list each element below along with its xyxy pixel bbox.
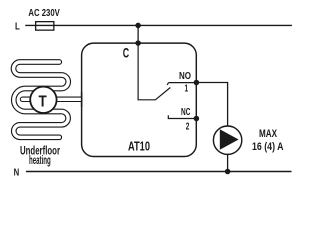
switch NC contact line xyxy=(168,115,196,118)
node NC terminal dot xyxy=(194,116,200,122)
pump P1 circle xyxy=(213,126,241,154)
node NO terminal dot xyxy=(194,80,200,86)
svg-text:2: 2 xyxy=(186,122,190,133)
junction dot on L xyxy=(135,23,141,29)
wire NO to pump xyxy=(196,83,227,127)
switch S1 common arm xyxy=(138,43,170,100)
svg-text:T: T xyxy=(39,93,47,110)
svg-text:NC: NC xyxy=(181,107,190,118)
svg-text:N: N xyxy=(14,167,20,179)
svg-text:16 (4) A: 16 (4) A xyxy=(252,141,284,153)
wire N line xyxy=(26,171,292,173)
wire pump to N xyxy=(227,154,229,171)
wire L line xyxy=(25,24,292,26)
wire drop from L to C xyxy=(137,25,139,43)
node C terminal dot xyxy=(135,40,141,46)
sensor lead pipe (white core right) xyxy=(39,98,81,101)
switch NO contact line xyxy=(167,83,196,85)
svg-text:C: C xyxy=(123,44,129,60)
svg-text:NO: NO xyxy=(179,71,191,82)
svg-text:AC 230V: AC 230V xyxy=(28,8,59,19)
svg-text:AT10: AT10 xyxy=(128,139,150,154)
svg-text:1: 1 xyxy=(185,84,189,95)
box left edge repaint xyxy=(81,92,83,107)
pump P1 rotor triangle xyxy=(220,129,239,150)
svg-text:heating: heating xyxy=(29,154,51,167)
fuse F1 xyxy=(36,22,54,31)
junction dot on N xyxy=(225,169,231,175)
svg-text:MAX: MAX xyxy=(259,128,277,140)
underfloor heating coil pipe (white core) xyxy=(14,62,69,137)
sensor lead pipe (outline, capped left end) xyxy=(23,97,41,103)
sensor lead pipe (outline to box) xyxy=(39,97,82,103)
sensor lead pipe (white core) xyxy=(23,98,41,101)
svg-text:L: L xyxy=(15,21,20,33)
underfloor heating coil pipe (outline) xyxy=(14,62,69,137)
thermostat box AT10 xyxy=(82,43,197,156)
sensor T circle xyxy=(30,87,56,113)
